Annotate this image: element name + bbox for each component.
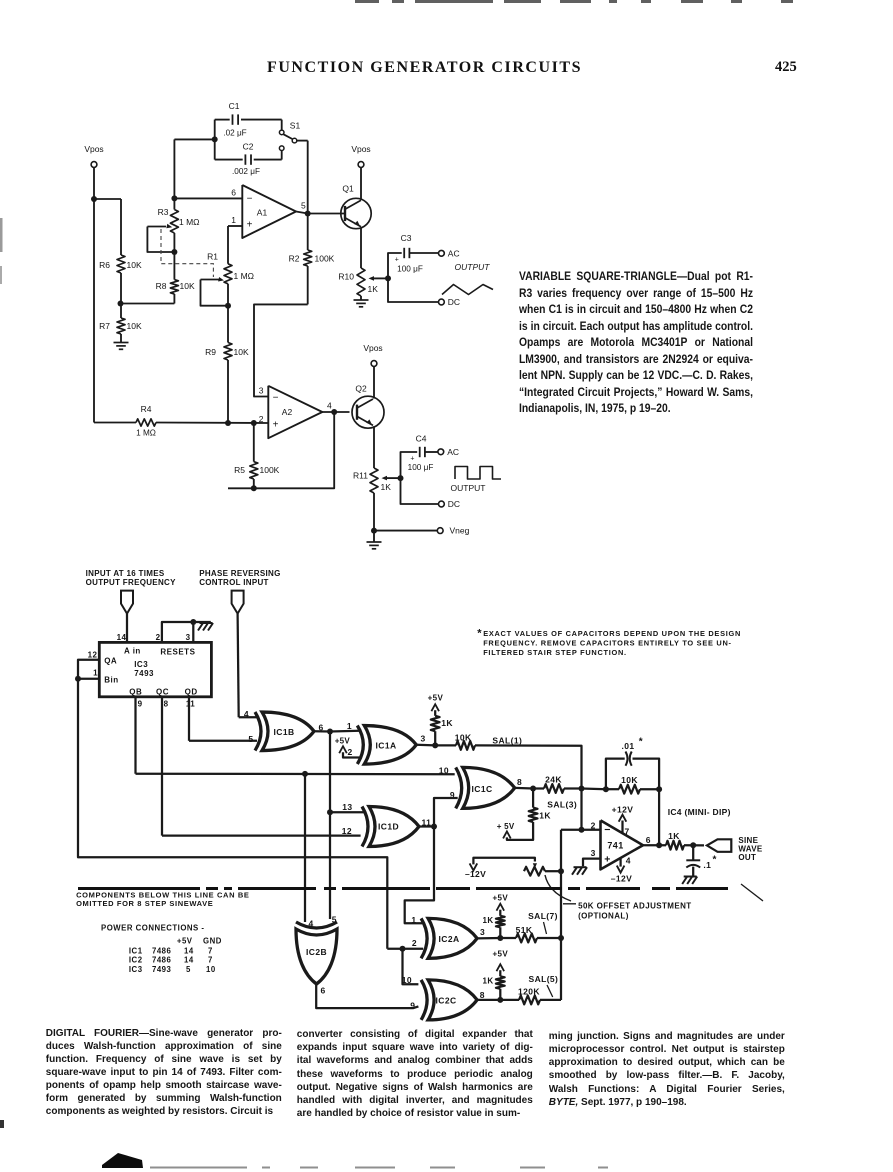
stray diagonal mark near margin	[741, 884, 763, 901]
svg-text:*: *	[639, 737, 643, 748]
resistor 1K pull-up at IC2C	[496, 976, 505, 989]
svg-text:DC: DC	[448, 297, 460, 307]
op-amp U1 741	[601, 820, 644, 869]
chassis ground at IC3 resets	[200, 622, 213, 624]
svg-text:+: +	[410, 456, 414, 463]
wire A2 output to Q2 base	[322, 411, 349, 413]
wire Q2 emitter down to R11	[373, 426, 375, 468]
svg-text:1K: 1K	[381, 482, 392, 492]
wire input flag to IC3 pin14	[126, 614, 128, 643]
op-amp A2	[268, 386, 322, 438]
wire pin6 line to op-amp A1 inverting input	[174, 197, 242, 199]
svg-text:Vpos: Vpos	[363, 343, 382, 353]
svg-text:10K: 10K	[180, 281, 195, 291]
svg-text:9: 9	[410, 1001, 415, 1011]
svg-text:8: 8	[164, 700, 169, 709]
wire IC3 QC pin8 down	[161, 697, 163, 836]
ground below R10	[354, 299, 369, 301]
wire Q2 collector to Vpos	[373, 366, 375, 398]
node junction R6/R7/R8	[118, 301, 124, 307]
dashed gang line R3-R1	[161, 229, 213, 277]
svg-text:2: 2	[348, 747, 353, 757]
svg-text:Q1: Q1	[342, 184, 354, 194]
svg-text:EXACT VALUES OF CAPACITORS DEP: EXACT VALUES OF CAPACITORS DEPEND UPON T…	[483, 629, 741, 638]
svg-text:QC: QC	[156, 688, 169, 697]
wire IC3 QB pin9 down	[134, 697, 136, 774]
caption: VARIABLE SQUARE-TRIANGLE paragraph	[519, 268, 753, 417]
svg-text:2: 2	[591, 820, 596, 830]
svg-text:R5: R5	[234, 465, 245, 475]
wire Q1 collector to Vpos	[360, 167, 362, 199]
IC3 pins 12,1 strap (QA)	[78, 660, 99, 679]
wire wiper junction down to DC terminal	[401, 478, 439, 504]
chassis ground at 741 pin3	[574, 866, 587, 868]
wire left Vpos rail down to R4 line	[93, 167, 95, 422]
svg-text:–12V: –12V	[611, 874, 632, 884]
svg-text:7: 7	[208, 947, 213, 956]
resistor R2 100K	[307, 214, 309, 251]
svg-text:.01: .01	[621, 741, 634, 751]
page number 425	[775, 59, 797, 76]
svg-text:R3: R3	[158, 207, 169, 217]
svg-text:PHASE REVERSING: PHASE REVERSING	[199, 569, 280, 578]
wire QB across to IC1C pin10	[136, 773, 455, 776]
svg-text:741: 741	[607, 841, 623, 851]
node 741 output junction	[656, 842, 662, 848]
svg-text:R9: R9	[205, 347, 216, 357]
svg-text:4: 4	[309, 918, 314, 928]
node IC2A output junction	[497, 935, 503, 941]
chassis ground below .1 cap	[684, 876, 697, 878]
wire to Vneg terminal	[374, 530, 437, 532]
+5V arrow for IC1C pull resistor	[503, 831, 511, 838]
svg-text:1 MΩ: 1 MΩ	[136, 429, 156, 438]
svg-text:Q2: Q2	[355, 384, 367, 394]
svg-text:C3: C3	[401, 233, 412, 243]
svg-text:+5V: +5V	[492, 893, 508, 902]
svg-text:14: 14	[184, 956, 194, 965]
wire R7 to ground	[120, 334, 122, 342]
svg-text:3: 3	[591, 848, 596, 858]
svg-text:SAL(3): SAL(3)	[547, 800, 577, 810]
svg-text:+5V: +5V	[492, 950, 508, 959]
wire junction to IC1D pin13	[330, 811, 364, 813]
wire C-loop left vertical	[214, 120, 216, 160]
svg-text:+: +	[604, 854, 611, 866]
svg-text:SAL(5): SAL(5)	[529, 974, 559, 984]
svg-text:INPUT AT 16 TIMES: INPUT AT 16 TIMES	[86, 569, 165, 578]
phase reversing flag	[232, 591, 244, 614]
square wave symbol	[455, 467, 501, 480]
svg-text:+ 5V: + 5V	[497, 822, 515, 831]
svg-text:5: 5	[301, 201, 306, 211]
svg-text:A in: A in	[124, 647, 141, 656]
svg-text:+: +	[247, 220, 253, 231]
svg-text:R4: R4	[141, 404, 152, 414]
svg-text:–12V: –12V	[465, 869, 486, 879]
wire IC1B output node to IC1A pin1	[330, 730, 359, 733]
svg-text:S1: S1	[290, 121, 301, 131]
node DC output terminal (square)	[439, 501, 445, 507]
resistor 1K pull-up at IC1A output	[431, 716, 440, 731]
wire SAL(1) to summing rail	[475, 745, 582, 829]
node offset rail pot junction	[558, 868, 564, 874]
svg-text:100 μF: 100 μF	[408, 463, 434, 472]
resistor 1K pull-down at IC1C output to +5V	[532, 789, 534, 808]
svg-text:IC2B: IC2B	[306, 947, 327, 957]
svg-text:10: 10	[402, 975, 412, 985]
svg-text:1: 1	[347, 721, 352, 731]
svg-text:3: 3	[421, 734, 426, 744]
resistor R10 1K (pot)	[357, 268, 365, 296]
svg-text:1: 1	[231, 215, 236, 225]
svg-text:+5V: +5V	[335, 736, 351, 745]
node output cap junction	[690, 842, 696, 848]
node C-loop junction	[212, 136, 218, 142]
wire R2 bottom loop to A2 pin3	[254, 304, 308, 396]
wire IC1D output to node	[419, 825, 434, 827]
svg-text:3: 3	[186, 633, 191, 642]
svg-text:9: 9	[138, 700, 143, 709]
svg-text:12: 12	[88, 651, 98, 660]
svg-text:6: 6	[231, 188, 236, 198]
wire Vpos junction to R6 top	[94, 198, 121, 200]
node IC2C output junction	[497, 997, 503, 1003]
node R3 bottom junction	[171, 249, 177, 255]
svg-text:7493: 7493	[134, 669, 154, 678]
node R11 wiper junction	[398, 475, 404, 481]
resistor R3 1 Meg (pot)	[173, 198, 175, 209]
node R1 bottom junction	[225, 303, 231, 309]
XOR gate IC1B	[255, 712, 261, 751]
svg-text:1: 1	[93, 669, 98, 678]
svg-text:R1: R1	[207, 252, 218, 262]
wire A1 output to Q1 base	[296, 212, 308, 214]
node IC2A pin2 junction	[400, 946, 406, 952]
svg-text:2: 2	[156, 633, 161, 642]
svg-text:10K: 10K	[455, 733, 472, 743]
separator dash-dot line	[78, 887, 728, 890]
node Vneg terminal	[437, 528, 443, 534]
wire IC2B output to IC2C pin9	[316, 984, 418, 1008]
-12V supply arrow on 741 pin4	[619, 858, 621, 867]
svg-text:COMPONENTS BELOW THIS LINE CAN: COMPONENTS BELOW THIS LINE CAN BE	[76, 890, 249, 899]
svg-text:*: *	[713, 855, 717, 866]
svg-text:1 MΩ: 1 MΩ	[234, 271, 255, 281]
svg-text:−: −	[273, 393, 279, 404]
svg-text:+: +	[395, 257, 399, 264]
svg-text:FREQUENCY. REMOVE CAPACITORS E: FREQUENCY. REMOVE CAPACITORS ENTIRELY TO…	[483, 639, 732, 648]
svg-text:−: −	[604, 824, 611, 836]
node IC1B output junction	[327, 729, 333, 735]
svg-text:IC2: IC2	[129, 956, 143, 965]
svg-text:10K: 10K	[621, 775, 638, 785]
wire phase flag down to IC1B pin4	[238, 614, 239, 718]
svg-text:1K: 1K	[539, 811, 551, 821]
caption column: right	[549, 1030, 785, 1109]
resistor R9 10K	[224, 343, 232, 361]
svg-text:IC1D: IC1D	[378, 822, 399, 832]
svg-text:Bin: Bin	[104, 675, 118, 684]
resistor R8 10K	[173, 252, 175, 280]
svg-text:(OPTIONAL): (OPTIONAL)	[578, 911, 629, 920]
svg-text:8: 8	[480, 990, 485, 1000]
svg-text:R6: R6	[99, 260, 110, 270]
svg-text:R10: R10	[338, 272, 354, 282]
XOR gate IC1A	[357, 726, 363, 765]
wire pin2 junction to IC2A	[387, 948, 423, 950]
node junction R3 top / pin6 wire	[171, 195, 177, 201]
svg-text:1K: 1K	[368, 284, 379, 294]
svg-text:+: +	[273, 420, 279, 431]
node IC1D output junction	[431, 824, 437, 830]
svg-text:OMITTED FOR 8 STEP SINEWAVE: OMITTED FOR 8 STEP SINEWAVE	[76, 899, 213, 908]
wire C4 to AC terminal	[425, 451, 438, 453]
50K offset pot	[524, 867, 545, 876]
wire pin2 junction down to IC2C pin10	[403, 949, 419, 985]
svg-text:100K: 100K	[260, 465, 280, 475]
node summing rail junction pin2	[579, 827, 585, 833]
svg-text:OUT: OUT	[738, 853, 756, 862]
svg-text:13: 13	[342, 802, 352, 812]
node junction to IC1D pin13	[327, 809, 333, 815]
svg-text:IC2C: IC2C	[436, 996, 457, 1006]
R1 wiper arrow and strap	[201, 279, 220, 281]
IC3 reset pins 2,3 strap to chassis ground	[162, 622, 211, 642]
svg-text:.02 μF: .02 μF	[223, 129, 246, 138]
node Vpos terminal (Q1 collector)	[358, 162, 364, 168]
node QA strap junction	[75, 676, 81, 682]
svg-text:1: 1	[411, 915, 416, 925]
wire IC1B output to node	[314, 730, 330, 732]
transistor Q2 2N2924	[352, 396, 384, 428]
svg-text:14: 14	[184, 947, 194, 956]
svg-text:+12V: +12V	[612, 804, 634, 814]
wire QD across to IC1B pin5	[189, 740, 257, 742]
svg-text:OUTPUT: OUTPUT	[455, 262, 491, 272]
svg-text:SAL(7): SAL(7)	[528, 911, 558, 921]
svg-text:7493: 7493	[152, 965, 172, 974]
+12V supply arrow on 741 pin7	[621, 821, 623, 833]
svg-text:7486: 7486	[152, 947, 172, 956]
capacitor C3 100 uF	[403, 248, 405, 258]
switch S1	[281, 120, 283, 130]
input flag (16x clock)	[121, 591, 133, 614]
XOR gate IC2C	[421, 980, 427, 1020]
50K pot wiper from -12V	[473, 858, 535, 865]
svg-text:DC: DC	[448, 499, 460, 509]
resistor R4 1 Meg	[94, 422, 136, 424]
svg-text:A2: A2	[282, 407, 293, 417]
resistor R6 10K	[117, 255, 125, 273]
svg-text:OUTPUT FREQUENCY: OUTPUT FREQUENCY	[86, 578, 176, 587]
node A2 output junction	[331, 409, 337, 415]
wire QC across to IC1D pin12	[162, 834, 361, 836]
svg-text:−: −	[247, 194, 253, 205]
svg-text:IC1A: IC1A	[376, 741, 397, 751]
node Vpos terminal (Q2 collector)	[371, 361, 377, 367]
svg-text:10: 10	[439, 765, 449, 775]
wire feedback rail down to 741 output node	[658, 789, 660, 845]
XOR gate IC2A	[421, 918, 427, 958]
capacitor C2 .002 uF	[215, 159, 243, 161]
svg-text:*: *	[477, 628, 482, 640]
node 10K feedback right junction	[656, 786, 662, 792]
wire A1 pin1 (+) input	[228, 225, 242, 227]
svg-text:QD: QD	[185, 688, 198, 697]
svg-text:4: 4	[327, 401, 332, 411]
svg-text:10K: 10K	[234, 347, 249, 357]
resistor 1K output	[666, 841, 684, 850]
svg-text:IC1: IC1	[129, 947, 143, 956]
svg-text:C1: C1	[229, 101, 240, 111]
svg-text:3: 3	[259, 386, 264, 396]
resistor 1K pull-up at IC2A	[496, 916, 505, 928]
caption column: middle	[297, 1028, 533, 1120]
wire C-loop junction to x=174 rail	[174, 138, 214, 140]
svg-text:14: 14	[117, 633, 127, 642]
svg-text:IC4 (MINI- DIP): IC4 (MINI- DIP)	[668, 807, 731, 817]
svg-text:1K: 1K	[482, 977, 493, 986]
scan artifact: left edge marks	[0, 218, 3, 252]
svg-text:24K: 24K	[545, 775, 562, 785]
svg-text:AC: AC	[447, 447, 459, 457]
svg-text:POWER CONNECTIONS -: POWER CONNECTIONS -	[101, 924, 205, 933]
svg-text:5: 5	[332, 915, 337, 925]
svg-text:.1: .1	[703, 860, 711, 870]
svg-text:A1: A1	[257, 208, 268, 218]
scan artifact: bottom-left black wedge	[102, 1153, 143, 1168]
scan artifact: bottom edge gray dashes	[150, 1167, 608, 1169]
svg-text:RESETS: RESETS	[160, 648, 195, 657]
node IC1C output junction	[530, 786, 536, 792]
svg-text:1K: 1K	[668, 831, 680, 841]
svg-text:IC3: IC3	[129, 965, 143, 974]
node R5 bottom junction	[251, 485, 257, 491]
node Vpos terminal (left)	[91, 162, 97, 168]
capacitor .1 to ground	[692, 845, 694, 860]
svg-text:R11: R11	[353, 471, 368, 481]
resistor 120K SAL(5)	[500, 999, 519, 1001]
svg-text:FILTERED STAIR STEP FUNCTION.: FILTERED STAIR STEP FUNCTION.	[483, 648, 627, 657]
wire wiper junction down to DC terminal	[388, 278, 439, 302]
svg-text:10: 10	[206, 965, 216, 974]
page header title	[267, 59, 582, 77]
svg-text:CONTROL INPUT: CONTROL INPUT	[199, 578, 269, 587]
svg-text:1 MΩ: 1 MΩ	[179, 217, 200, 227]
svg-text:IC2A: IC2A	[439, 934, 460, 944]
sine wave out flag	[707, 839, 731, 852]
wire A2 feedback bottom loop	[228, 412, 334, 488]
capacitor C1 .02 uF with loop	[215, 119, 230, 121]
svg-text:R7: R7	[99, 321, 110, 331]
wire pin2 line (741 inverting input)	[561, 829, 601, 831]
triangle wave symbol	[442, 285, 493, 295]
node offset rail SAL(7) junction	[558, 935, 564, 941]
svg-text:4: 4	[626, 856, 631, 866]
svg-text:+5V: +5V	[428, 694, 444, 703]
svg-text:6: 6	[321, 986, 326, 996]
capacitor C4 100 uF	[419, 447, 421, 457]
caption column: DIGITAL FOURIER left	[46, 1027, 282, 1119]
XOR gate IC1C	[456, 767, 462, 808]
svg-text:IC3: IC3	[134, 660, 148, 669]
svg-text:51K: 51K	[516, 925, 533, 935]
svg-text:2: 2	[259, 414, 264, 424]
wire C3 to AC terminal	[409, 252, 438, 254]
svg-text:10K: 10K	[127, 260, 142, 270]
svg-text:Vpos: Vpos	[84, 144, 103, 154]
svg-text:8: 8	[517, 777, 522, 787]
wire IC1A output to 1K junction	[416, 744, 435, 747]
wire 741 output	[643, 844, 666, 846]
IC3 7493 counter body	[99, 642, 211, 696]
node 10K feedback left junction	[603, 786, 609, 792]
svg-text:7486: 7486	[152, 956, 172, 965]
callout line to 50K text	[545, 875, 576, 904]
svg-text:100K: 100K	[315, 254, 335, 264]
wire offset rail down from pin2 line	[560, 830, 562, 1000]
svg-text:11: 11	[186, 700, 195, 709]
transistor Q1 2N2924	[341, 198, 371, 228]
ground below R7	[114, 342, 129, 344]
resistor R1 1 Meg (pot)	[224, 264, 232, 284]
svg-text:IC1C: IC1C	[472, 784, 493, 794]
svg-text:R8: R8	[156, 281, 167, 291]
svg-text:Vpos: Vpos	[351, 144, 370, 154]
resistor R11 1K (pot)	[370, 468, 378, 493]
node DC output terminal (triangle)	[439, 299, 445, 305]
svg-text:SAL(1): SAL(1)	[492, 736, 522, 746]
svg-text:1K: 1K	[441, 718, 453, 728]
capacitor .01 feedback loop	[606, 759, 625, 790]
svg-text:120K: 120K	[518, 986, 540, 996]
node R10 wiper junction	[385, 275, 391, 281]
resistor R7 10K	[117, 318, 125, 334]
svg-text:12: 12	[342, 826, 352, 836]
svg-text:7: 7	[625, 827, 630, 837]
wire R1 bottom to R9	[227, 306, 229, 343]
resistor 10K series SAL(1)	[435, 744, 456, 746]
scan artifact: top edge dashes	[355, 0, 793, 3]
svg-text:GND: GND	[203, 936, 222, 945]
svg-text:10K: 10K	[127, 321, 142, 331]
resistor 24K to summing junction	[533, 787, 544, 789]
wire R6 bottom to junction	[120, 273, 122, 318]
resistor 51K SAL(7)	[500, 937, 516, 939]
node R4 line junction at R1/R9 rail	[225, 420, 231, 426]
wire Q1 emitter down to R10	[360, 227, 362, 268]
node A1 output / pin5	[305, 211, 311, 217]
wire QA rail down-left and across to expander	[78, 679, 387, 949]
wire IC2C output	[477, 999, 500, 1001]
R3 wiper arrow and strap	[147, 226, 166, 228]
svg-text:5: 5	[186, 965, 191, 974]
svg-text:QA: QA	[104, 656, 117, 665]
wire wiper junction up to C3	[388, 253, 402, 278]
wire 741 pin3 to chassis ground	[583, 859, 601, 867]
node R4 line junction at R5 top	[251, 420, 257, 426]
wire IC1C pin9 from IC1D output node	[434, 798, 458, 827]
svg-text:IC1B: IC1B	[274, 727, 295, 737]
svg-text:QB: QB	[129, 688, 142, 697]
svg-text:AC: AC	[448, 248, 460, 258]
wire IC1D output down and jog to IC2A pin1	[405, 827, 434, 924]
svg-text:7: 7	[208, 956, 213, 965]
wire IC3 QD pin11 down	[188, 697, 190, 741]
svg-text:50K OFFSET ADJUSTMENT: 50K OFFSET ADJUSTMENT	[578, 902, 691, 911]
wire IC1C output to junction	[515, 787, 533, 790]
